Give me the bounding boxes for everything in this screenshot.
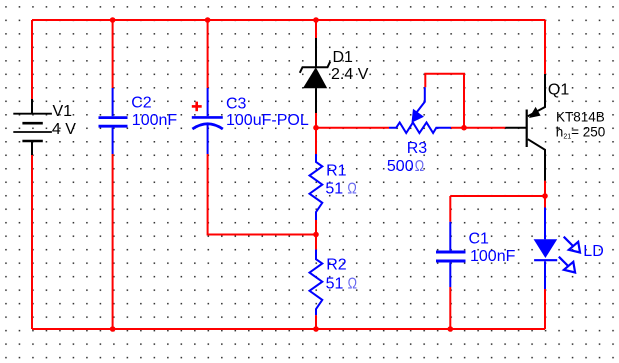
svg-text:KT814B: KT814B: [556, 109, 605, 124]
svg-text:C3: C3: [226, 96, 247, 113]
svg-text:2.4 V: 2.4 V: [331, 66, 369, 83]
svg-text:100nF: 100nF: [470, 248, 516, 265]
svg-text:51: 51: [326, 275, 344, 292]
svg-text:LD: LD: [583, 243, 603, 260]
svg-text:D1: D1: [333, 49, 354, 66]
svg-text:Q1: Q1: [548, 82, 569, 99]
svg-text:C2: C2: [131, 94, 152, 111]
svg-text:4 V: 4 V: [52, 121, 76, 138]
svg-text:V1: V1: [53, 103, 73, 120]
svg-text:100uF-POL: 100uF-POL: [226, 112, 309, 129]
svg-text:Ω: Ω: [348, 275, 357, 292]
svg-text:500: 500: [387, 158, 414, 175]
svg-text:ħ21= 250: ħ21= 250: [556, 125, 605, 141]
svg-text:100nF: 100nF: [132, 112, 178, 129]
svg-text:R2: R2: [326, 257, 347, 274]
svg-text:R1: R1: [326, 163, 347, 180]
svg-text:51: 51: [325, 181, 343, 198]
svg-text:R3: R3: [407, 140, 428, 157]
svg-text:C1: C1: [469, 230, 490, 247]
svg-text:Ω: Ω: [347, 181, 356, 198]
svg-text:Ω: Ω: [415, 158, 424, 175]
